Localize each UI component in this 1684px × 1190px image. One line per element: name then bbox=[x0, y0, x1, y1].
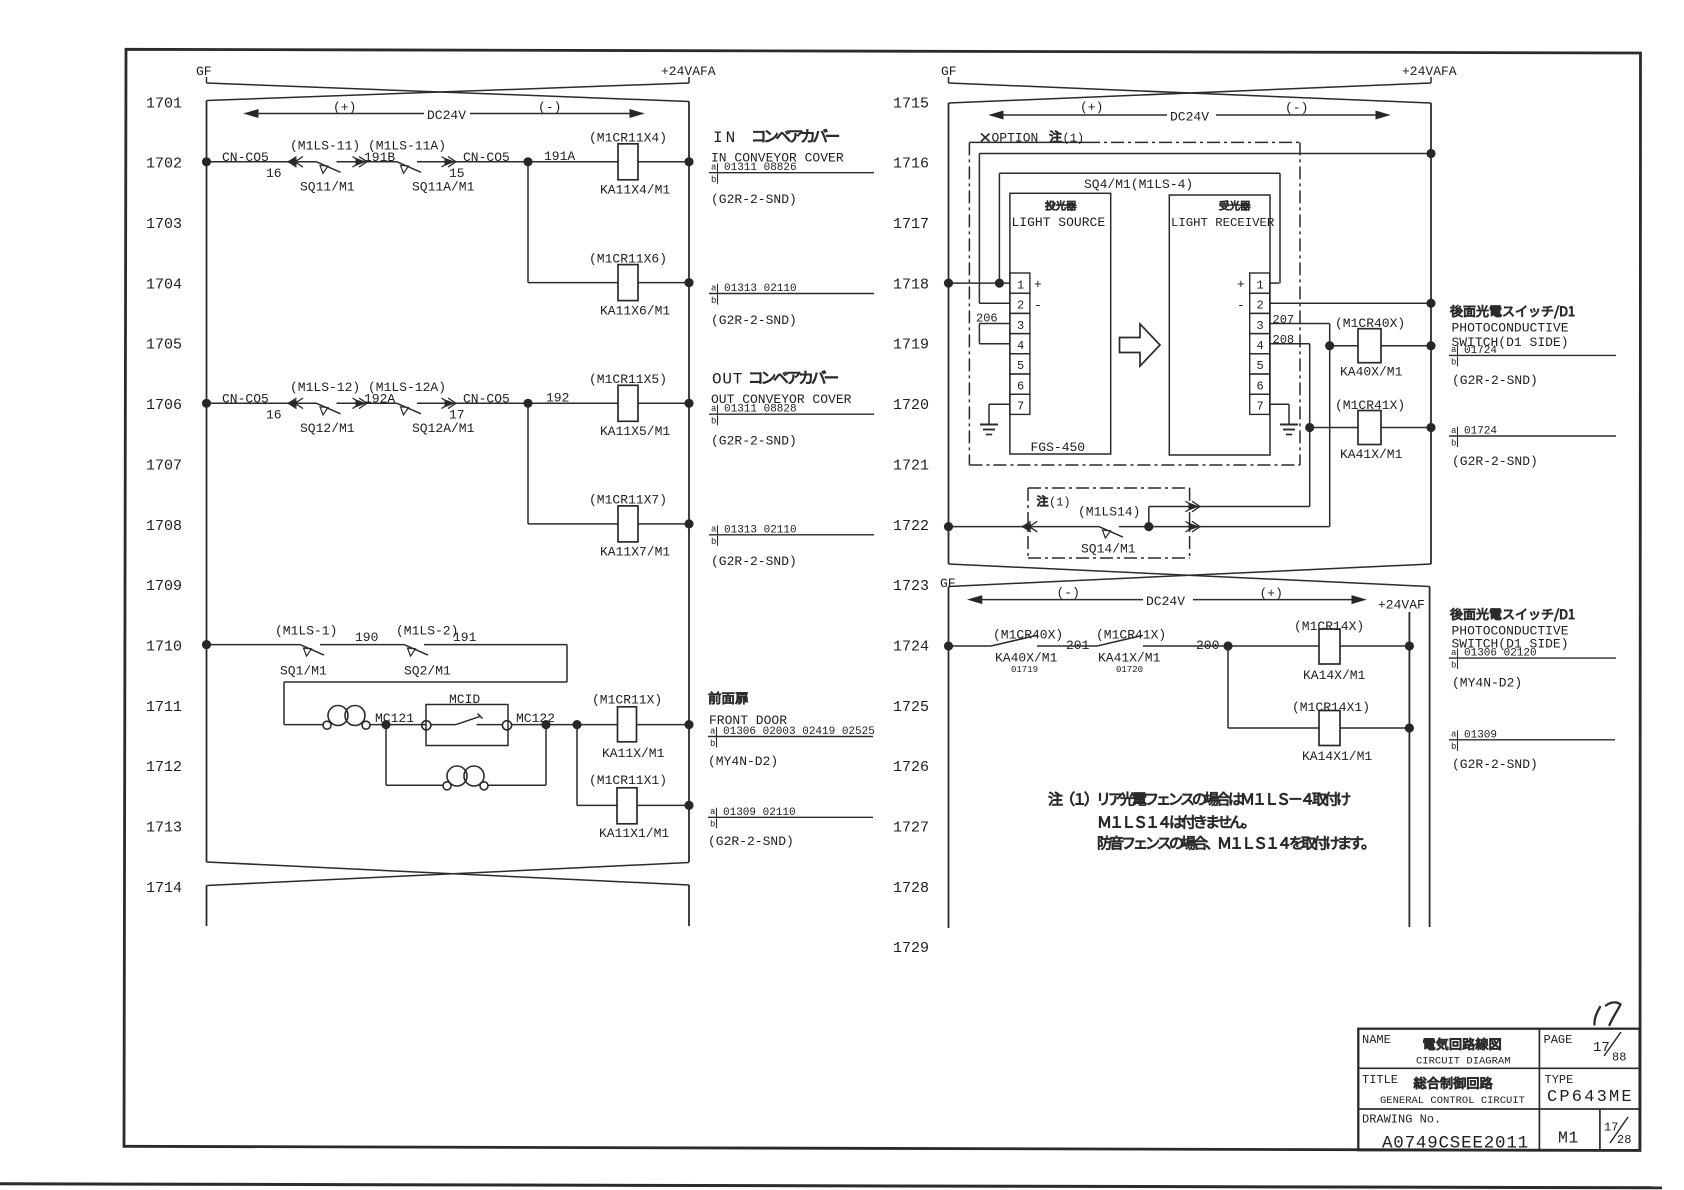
svg-text:(M1CR41X): (M1CR41X) bbox=[1096, 628, 1166, 643]
label + (light source pin 1) bbox=[1034, 277, 1042, 292]
svg-text:b: b bbox=[1451, 660, 1456, 670]
title block NAME cell bbox=[1362, 1033, 1511, 1068]
svg-text:(M1CR40X): (M1CR40X) bbox=[1335, 316, 1405, 331]
page bottom scan edge line bbox=[0, 1184, 1662, 1188]
annotation (G2R-2-SND) rung 1720 bbox=[1452, 454, 1538, 469]
node 191A junction bbox=[524, 158, 532, 166]
svg-text:b: b bbox=[1451, 742, 1456, 752]
svg-text:DRAWING No.: DRAWING No. bbox=[1362, 1113, 1441, 1127]
annotation front door (Japanese) bbox=[709, 692, 748, 705]
svg-text:SQ12A/M1: SQ12A/M1 bbox=[412, 421, 475, 436]
svg-text:1709: 1709 bbox=[146, 578, 182, 595]
wire label 200 bbox=[1196, 638, 1219, 653]
net label +24VAFA (right half top) bbox=[1402, 64, 1457, 79]
limit switch SQ12/M1 (M1LS-12) bbox=[317, 403, 341, 415]
svg-text:M1: M1 bbox=[1558, 1129, 1579, 1148]
svg-text:SQ2/M1: SQ2/M1 bbox=[404, 664, 451, 679]
branch wire from node 191A down to rung 1704 bbox=[528, 162, 618, 283]
label 17 (rung 1706) bbox=[449, 407, 465, 422]
branch wire to KA11X1 coil bbox=[577, 725, 618, 806]
svg-text:SQ4/M1(M1LS-4): SQ4/M1(M1LS-4) bbox=[1084, 177, 1193, 192]
svg-text:(-): (-) bbox=[1285, 101, 1308, 116]
label KA14X1/M1 bbox=[1302, 749, 1372, 764]
wire rung 1720 to coil bbox=[1310, 427, 1358, 429]
svg-text:(M1CR40X): (M1CR40X) bbox=[993, 628, 1063, 643]
svg-text:DC24V: DC24V bbox=[1146, 594, 1185, 609]
svg-text:(M1CR11X5): (M1CR11X5) bbox=[589, 372, 667, 387]
label (M1CR41X) contact bbox=[1096, 628, 1166, 643]
+24VAF bus wire (right half lower) bbox=[1408, 612, 1410, 927]
svg-text:b: b bbox=[711, 296, 716, 306]
svg-text:LIGHT SOURCE: LIGHT SOURCE bbox=[1012, 215, 1106, 230]
svg-text:CN-CO5: CN-CO5 bbox=[222, 391, 269, 406]
title block frame bbox=[1358, 1029, 1639, 1151]
svg-text:208: 208 bbox=[1273, 333, 1295, 347]
svg-text:FGS-450: FGS-450 bbox=[1031, 440, 1086, 455]
wire to node 200 bbox=[1143, 645, 1319, 647]
relay coil KA11X4/M1 (M1CR11X4) bbox=[618, 144, 689, 180]
light fence unit interconnect SQ4/M1 (M1LS-4) bbox=[999, 173, 1280, 283]
ground (light receiver) bbox=[1280, 425, 1298, 435]
right bus wire (right half upper) bbox=[1430, 103, 1432, 564]
svg-text:6: 6 bbox=[1017, 379, 1024, 393]
limit switch SQ11A/M1 (M1LS-11A) bbox=[397, 162, 421, 174]
svg-text:(+): (+) bbox=[1260, 586, 1283, 601]
junction on left bus rung 1718 bbox=[944, 279, 952, 287]
connector CN-CO5 pin 16 (rung 1706) bbox=[287, 398, 303, 409]
svg-text:IN: IN bbox=[713, 129, 738, 147]
svg-text:OUT: OUT bbox=[712, 370, 743, 388]
label (M1CR11X5) bbox=[589, 372, 667, 387]
title block sheet 17/28 cell bbox=[1604, 1117, 1631, 1147]
wire rung 1702 left segment bbox=[207, 161, 317, 163]
label KA40X/M1 contact bbox=[995, 650, 1058, 665]
svg-text:1727: 1727 bbox=[893, 820, 929, 837]
ground (light source) bbox=[980, 425, 998, 435]
label 16 (rung 1702) bbox=[266, 166, 282, 181]
annotation OUT conveyor cover (Japanese) bbox=[712, 370, 837, 388]
relay coil KA11X7/M1 (M1CR11X7) bbox=[618, 506, 689, 542]
label (M1CR41X) bbox=[1335, 398, 1405, 413]
svg-text:(M1CR11X4): (M1CR11X4) bbox=[589, 131, 667, 146]
left bus continuation stub below 1714 bbox=[206, 886, 208, 927]
annotation IN CONVEYOR COVER bbox=[711, 150, 844, 165]
svg-text:5: 5 bbox=[1017, 359, 1024, 373]
wire upper branch to net 208 with connector bbox=[1149, 501, 1310, 526]
svg-text:(G2R-2-SND): (G2R-2-SND) bbox=[711, 434, 797, 449]
svg-text:1720: 1720 bbox=[893, 397, 929, 414]
junction on left bus rung 1724 bbox=[944, 642, 952, 650]
relay coil KA14X/M1 (M1CR14X) bbox=[1319, 629, 1409, 664]
svg-text:1: 1 bbox=[1257, 278, 1264, 292]
svg-text:KA11X4/M1: KA11X4/M1 bbox=[600, 183, 670, 198]
svg-text:1724: 1724 bbox=[893, 638, 929, 655]
relay coil KA14X1/M1 (M1CR14X1) bbox=[1319, 711, 1409, 746]
svg-text:SQ11/M1: SQ11/M1 bbox=[300, 179, 355, 194]
terminal address line a/b rung 1713 bbox=[708, 807, 873, 830]
svg-text:SQ14/M1: SQ14/M1 bbox=[1081, 542, 1136, 557]
relay coil KA11X/M1 (M1CR11X) bbox=[618, 707, 690, 742]
relay coil KA11X5/M1 (M1CR11X5) bbox=[618, 385, 689, 421]
rung numbers 1701-1714 bbox=[146, 95, 182, 897]
title block TYPE cell bbox=[1545, 1073, 1634, 1107]
svg-text:1729: 1729 bbox=[893, 940, 929, 957]
svg-text:1704: 1704 bbox=[146, 276, 182, 293]
wire MCID to MC122 bbox=[512, 724, 619, 726]
label KA14X/M1 bbox=[1303, 668, 1366, 683]
junction on right bus rung 1720 bbox=[1427, 423, 1435, 431]
rung numbers 1715-1729 bbox=[893, 95, 929, 957]
junction on right bus rung 1713 bbox=[685, 801, 693, 809]
wire label 191 bbox=[453, 630, 477, 645]
twisted-wire splice connector (rung 1712) bbox=[443, 766, 488, 790]
light receiver unit box bbox=[1169, 195, 1270, 455]
svg-text:3: 3 bbox=[1257, 319, 1264, 333]
terminal address line a/b rung 1711 bbox=[708, 726, 875, 749]
branch wire node 200 to KA14X1 coil bbox=[1228, 646, 1319, 728]
label SQ14/M1 bbox=[1081, 542, 1136, 557]
svg-text:(M1LS-2): (M1LS-2) bbox=[396, 624, 458, 639]
title block title (Japanese) bbox=[1414, 1077, 1493, 1089]
label MC122 bbox=[516, 711, 555, 726]
svg-text:1712: 1712 bbox=[146, 759, 182, 776]
relay coil KA41X/M1 (M1CR41X) bbox=[1358, 411, 1431, 445]
left bus wire (right half lower) bbox=[948, 587, 950, 929]
svg-text:1708: 1708 bbox=[146, 518, 182, 535]
page-continuation crossover at rung 1723 bbox=[949, 564, 1432, 587]
junction net207 rung 1719 bbox=[1326, 342, 1334, 350]
label KA11X4/M1 bbox=[600, 183, 670, 198]
svg-text:GF: GF bbox=[941, 64, 957, 79]
page-continuation crossover at rung 1714 bbox=[207, 862, 690, 886]
label KA11X1/M1 bbox=[599, 826, 669, 841]
label SQ11/M1 bbox=[300, 179, 355, 194]
annotation (MY4N-D2) rung 1724 bbox=[1452, 676, 1522, 691]
label KA11X7/M1 bbox=[600, 545, 670, 560]
relay contact KA40X/M1 (M1CR40X) bbox=[991, 635, 1037, 646]
wire rung 1702 to coil bbox=[528, 161, 618, 163]
label (+) left half bbox=[333, 100, 356, 115]
label SQ11A/M1 bbox=[412, 179, 475, 194]
junction on right bus rung 1702 bbox=[685, 158, 693, 166]
svg-text:KA11X/M1: KA11X/M1 bbox=[602, 746, 665, 761]
svg-text:KA14X/M1: KA14X/M1 bbox=[1303, 668, 1366, 683]
light receiver pin 7 ground wire bbox=[1270, 404, 1289, 424]
net 206 loop pins 3-4 bbox=[979, 324, 1010, 344]
label (M1CR14X1) bbox=[1292, 700, 1370, 715]
rung 1718 wire left bus to light source pin 1 bbox=[949, 282, 1010, 284]
svg-text:4: 4 bbox=[1017, 339, 1024, 353]
wire rung 1724 to KA40X contact bbox=[949, 645, 992, 647]
svg-text:1714: 1714 bbox=[146, 880, 182, 897]
junction receiver pin2 on right bus bbox=[1427, 299, 1435, 307]
label (+) right half lower bbox=[1260, 586, 1283, 601]
label 16 (rung 1706) bbox=[266, 407, 282, 422]
svg-text:01719: 01719 bbox=[1011, 665, 1038, 675]
label (Japanese) light receiver bbox=[1220, 201, 1251, 211]
svg-text:(M1LS-1): (M1LS-1) bbox=[275, 624, 337, 639]
label DC24V left half bbox=[427, 108, 466, 123]
wire + connector between SQ11 and SQ11A bbox=[337, 157, 398, 168]
wire rung 1706 to coil bbox=[528, 402, 618, 404]
svg-text:b: b bbox=[1451, 358, 1456, 368]
OPTION dash-dot boundary box bbox=[969, 142, 1300, 465]
svg-text:2: 2 bbox=[1257, 299, 1264, 313]
svg-text:KA11X6/M1: KA11X6/M1 bbox=[600, 303, 670, 318]
label LIGHT SOURCE bbox=[1012, 215, 1106, 230]
svg-text:SQ1/M1: SQ1/M1 bbox=[280, 664, 327, 679]
page-continuation crossover at rung 1715 bbox=[949, 77, 1432, 103]
label 15 (rung 1702) bbox=[449, 166, 465, 181]
light source terminal block pins 1-7 bbox=[1010, 273, 1030, 414]
svg-text:KA41X/M1: KA41X/M1 bbox=[1340, 447, 1403, 462]
svg-text:NAME: NAME bbox=[1362, 1033, 1391, 1047]
limit switch SQ11/M1 (M1LS-11) bbox=[317, 162, 341, 174]
svg-text:1711: 1711 bbox=[146, 699, 182, 716]
svg-text:7: 7 bbox=[1257, 400, 1264, 414]
terminal address line a/b rung 1706 bbox=[709, 404, 874, 427]
label (M1LS-12A) bbox=[368, 380, 446, 395]
title block PAGE cell bbox=[1544, 1032, 1627, 1065]
junction MC121 bbox=[382, 721, 390, 729]
junction node 200 bbox=[1224, 642, 1232, 650]
handwritten page number 17 bbox=[1594, 1002, 1620, 1025]
label SQ1/M1 bbox=[280, 664, 327, 679]
svg-text:(M1LS-12A): (M1LS-12A) bbox=[368, 380, 446, 395]
svg-text:CN-CO5: CN-CO5 bbox=[222, 150, 269, 165]
annotation OUT CONVEYOR COVER bbox=[711, 392, 852, 407]
junction pin2 wire on right bus bbox=[1427, 149, 1435, 157]
svg-text:1721: 1721 bbox=[893, 457, 929, 474]
wire between SQ1 and SQ2 bbox=[320, 644, 404, 646]
label DC24V right half upper bbox=[1170, 110, 1209, 125]
label (M1LS-2) bbox=[396, 624, 458, 639]
wire label 192 bbox=[546, 391, 569, 406]
label KA11X5/M1 bbox=[600, 424, 670, 439]
label LIGHT RECEIVER bbox=[1171, 216, 1275, 230]
relay contact KA41X/M1 (M1CR41X) bbox=[1097, 635, 1143, 646]
svg-text:MC121: MC121 bbox=[375, 711, 414, 726]
svg-text:(M1CR14X1): (M1CR14X1) bbox=[1292, 700, 1370, 715]
junction on right bus rung 1704 bbox=[685, 279, 693, 287]
svg-text:-: - bbox=[1237, 298, 1245, 313]
svg-text:+24VAFA: +24VAFA bbox=[1402, 64, 1457, 79]
svg-text:(+): (+) bbox=[1080, 100, 1103, 115]
left bus wire (right half upper) bbox=[948, 103, 950, 564]
label (M1CR11X6) bbox=[589, 251, 667, 266]
svg-text:TITLE: TITLE bbox=[1362, 1073, 1398, 1087]
wire receiver pin 2 to right bus bbox=[1270, 302, 1431, 304]
terminal address line a/b rung 1724 bbox=[1449, 648, 1616, 671]
label KA41X/M1 bbox=[1340, 447, 1403, 462]
svg-text:1706: 1706 bbox=[146, 397, 182, 414]
label (M1CR14X) bbox=[1294, 619, 1364, 634]
junction MC122 bbox=[542, 721, 550, 729]
junction SQ4 drop at pin 1 bbox=[995, 279, 1003, 287]
light receiver terminal block pins 1-7 bbox=[1250, 273, 1270, 414]
svg-text:a: a bbox=[1451, 345, 1457, 355]
svg-text:MCID: MCID bbox=[449, 692, 480, 707]
junction on right bus rung 1711 bbox=[685, 721, 693, 729]
svg-text:1713: 1713 bbox=[146, 820, 182, 837]
svg-text:(M1LS-11A): (M1LS-11A) bbox=[368, 139, 446, 154]
svg-text:+24VAFA: +24VAFA bbox=[661, 64, 716, 79]
light source pin 7 ground wire bbox=[989, 404, 1010, 424]
svg-text:(-): (-) bbox=[1057, 586, 1080, 601]
svg-text:88: 88 bbox=[1612, 1051, 1626, 1065]
annotation FRONT DOOR bbox=[709, 713, 787, 728]
svg-text:GF: GF bbox=[196, 64, 212, 79]
DC24V polarity arrow (left half) bbox=[245, 110, 643, 118]
label KA40X/M1 bbox=[1340, 365, 1403, 380]
svg-text:CN-CO5: CN-CO5 bbox=[463, 391, 510, 406]
svg-text:(M1LS14): (M1LS14) bbox=[1078, 505, 1140, 520]
label + (receiver pin 1) bbox=[1237, 277, 1245, 292]
svg-text:a: a bbox=[710, 726, 716, 736]
annotation IN conveyor cover (Japanese) bbox=[713, 129, 839, 147]
annotation (G2R-2-SND) rung 1719 bbox=[1452, 373, 1538, 388]
annotation (G2R-2-SND) rung 1708 bbox=[711, 554, 797, 569]
label CN-CO5 (rung 1706 left) bbox=[222, 391, 269, 406]
svg-text:1723: 1723 bbox=[893, 578, 929, 595]
title block name (Japanese) bbox=[1424, 1038, 1501, 1050]
svg-text:(M1LS-11): (M1LS-11) bbox=[290, 139, 360, 154]
junction on right bus rung 1708 bbox=[685, 520, 693, 528]
label (M1CR40X) contact bbox=[993, 628, 1063, 643]
svg-text:SQ12/M1: SQ12/M1 bbox=[300, 421, 355, 436]
svg-text:190: 190 bbox=[355, 630, 378, 645]
svg-text:(M1CR14X): (M1CR14X) bbox=[1294, 619, 1364, 634]
svg-text:3: 3 bbox=[1017, 319, 1024, 333]
wire rung 1719 to coil bbox=[1330, 345, 1358, 347]
svg-text:+: + bbox=[1034, 277, 1042, 292]
wire rung 1706 after SQ12A with connector CN-CO5 pin 17 bbox=[417, 398, 528, 409]
label (M1CR11X) bbox=[592, 693, 662, 708]
svg-text:(-): (-) bbox=[538, 100, 561, 115]
right bus continuation stub below 1714 bbox=[688, 885, 690, 926]
junction for KA11X1 branch bbox=[573, 721, 581, 729]
svg-text:TYPE: TYPE bbox=[1545, 1073, 1574, 1087]
wire rung 1711 into splice bbox=[284, 724, 324, 726]
wire label 190 bbox=[355, 630, 378, 645]
wire SQ14 to junction bbox=[1119, 526, 1149, 528]
relay coil KA11X1/M1 (M1CR11X1) bbox=[617, 788, 689, 824]
junction on right bus rung 1706 bbox=[685, 399, 693, 407]
label note(1) in SQ14 box bbox=[1037, 495, 1071, 509]
svg-text:(M1CR41X): (M1CR41X) bbox=[1335, 398, 1405, 413]
svg-text:01720: 01720 bbox=[1116, 665, 1143, 675]
net label GF (left half top) bbox=[196, 64, 212, 79]
wire rung 1710 to SQ1 bbox=[207, 644, 301, 646]
svg-text:KA40X/M1: KA40X/M1 bbox=[995, 650, 1058, 665]
svg-text:KA41X/M1: KA41X/M1 bbox=[1098, 650, 1161, 665]
light receiver pin 1 wire to SQ4 interconnect bbox=[1270, 282, 1280, 284]
svg-text:(M1CR11X6): (M1CR11X6) bbox=[589, 251, 667, 266]
svg-text:1722: 1722 bbox=[893, 518, 929, 535]
svg-text:1717: 1717 bbox=[893, 216, 929, 233]
wire rung 1722 with connector bbox=[949, 521, 1099, 532]
limit switch SQ1/M1 (M1LS-1) bbox=[300, 645, 324, 657]
net label GF (rung 1723) bbox=[940, 576, 956, 591]
left bus wire (left half) bbox=[206, 101, 208, 863]
svg-text:7: 7 bbox=[1017, 400, 1024, 414]
svg-text:OPTION: OPTION bbox=[992, 131, 1039, 146]
svg-text:a: a bbox=[1451, 648, 1457, 658]
wire label 208 bbox=[1273, 333, 1295, 347]
note(1) dash-dot box around SQ14 bbox=[1028, 488, 1190, 558]
svg-text:b: b bbox=[711, 537, 716, 547]
terminal address line a/b rung 1702 bbox=[709, 162, 874, 185]
junction on left bus rung 1706 bbox=[202, 399, 210, 407]
parallel path with twisted-wire splice (rung 1712) bbox=[386, 725, 546, 786]
svg-text:1715: 1715 bbox=[893, 95, 929, 112]
svg-text:(M1LS-12): (M1LS-12) bbox=[290, 380, 360, 395]
annotation photoconductive switch D1 (Japanese) rung 1724 bbox=[1450, 608, 1574, 621]
svg-text:1707: 1707 bbox=[146, 457, 182, 474]
svg-text:1705: 1705 bbox=[146, 337, 182, 354]
svg-text:17: 17 bbox=[449, 407, 465, 422]
svg-text:(+): (+) bbox=[333, 100, 356, 115]
label FGS-450 bbox=[1031, 440, 1086, 455]
junction on +24VAF bus rung 1724 bbox=[1405, 642, 1413, 650]
label CN-CO5 (rung 1702 left) bbox=[222, 150, 269, 165]
svg-text:a: a bbox=[1451, 730, 1457, 740]
label xOPTION note(1) bbox=[981, 131, 1084, 146]
node 192 junction bbox=[524, 399, 532, 407]
svg-text:CN-CO5: CN-CO5 bbox=[463, 150, 510, 165]
svg-text:(G2R-2-SND): (G2R-2-SND) bbox=[711, 554, 797, 569]
junction on right bus rung 1719 bbox=[1427, 342, 1435, 350]
svg-text:1703: 1703 bbox=[146, 216, 182, 233]
wire light source pin 2 to right bus (minus) bbox=[979, 154, 1431, 304]
label (M1LS14) bbox=[1078, 505, 1140, 520]
label CN-CO5 (rung 1706 right) bbox=[463, 391, 510, 406]
label KA41X/M1 contact bbox=[1098, 650, 1161, 665]
page-continuation crossover at rung 1701 bbox=[207, 77, 690, 102]
svg-text:b: b bbox=[1451, 438, 1456, 448]
label (M1CR11X1) bbox=[589, 773, 667, 788]
annotation (G2R-2-SND) rung 1713 bbox=[708, 834, 794, 849]
terminal ref 01719 bbox=[1011, 665, 1038, 675]
annotation (G2R-2-SND) rung 1702 bbox=[711, 192, 797, 207]
svg-text:15: 15 bbox=[449, 166, 465, 181]
wire rung 1710 routing down to front-door circuit bbox=[284, 645, 567, 725]
svg-text:A0749CSEE2011: A0749CSEE2011 bbox=[1382, 1134, 1529, 1154]
svg-text:1702: 1702 bbox=[146, 156, 182, 173]
note text line 2 (Japanese) bbox=[1099, 815, 1246, 829]
svg-text:(G2R-2-SND): (G2R-2-SND) bbox=[1452, 373, 1538, 388]
title block TITLE cell bbox=[1362, 1073, 1525, 1107]
label KA11X/M1 bbox=[602, 746, 665, 761]
label (M1CR11X7) bbox=[589, 493, 667, 508]
note text line 1 (Japanese) bbox=[1049, 792, 1350, 806]
relay coil KA40X/M1 (M1CR40X) bbox=[1358, 329, 1431, 363]
svg-text:1725: 1725 bbox=[893, 699, 929, 716]
svg-text:GENERAL CONTROL CIRCUIT: GENERAL CONTROL CIRCUIT bbox=[1380, 1095, 1525, 1107]
wire lower branch to net 207 with connector bbox=[1149, 521, 1330, 532]
svg-text:206: 206 bbox=[976, 312, 998, 326]
svg-text:a: a bbox=[711, 525, 717, 535]
svg-text:(M1CR11X7): (M1CR11X7) bbox=[589, 493, 667, 508]
connector CN-CO5 pin 16 (rung 1702) bbox=[287, 157, 303, 168]
svg-text:a: a bbox=[710, 807, 716, 817]
right bus wire (left half) bbox=[688, 102, 690, 863]
wire label 206 bbox=[976, 312, 998, 326]
label (M1CR40X) bbox=[1335, 316, 1405, 331]
svg-text:1719: 1719 bbox=[893, 337, 929, 354]
svg-text:28: 28 bbox=[1617, 1133, 1631, 1147]
svg-text:1726: 1726 bbox=[893, 759, 929, 776]
